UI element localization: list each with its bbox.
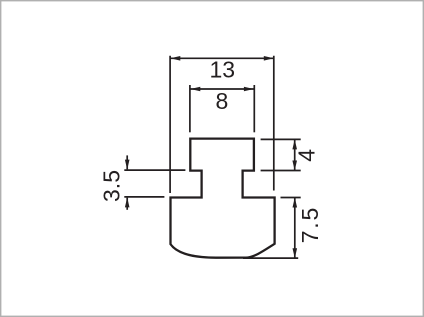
dimension 4: value label (rotated) [293,149,319,162]
svg-text:7.5: 7.5 [297,206,323,243]
dimension 3.5: extension line bottom [124,196,164,198]
svg-text:3.5: 3.5 [99,170,125,202]
dimension 8: extension line left [189,85,191,132]
dimension 7.5: dimension line with arrows [293,198,298,259]
svg-text:13: 13 [210,57,236,83]
dimension 7.5: value label (rotated) [297,206,323,243]
dimension 3.5: value label (rotated) [99,170,125,202]
svg-text:8: 8 [216,88,229,114]
dimension 4: extension line bottom [261,170,301,172]
dimension 13: value label [210,57,236,83]
dimension 8: dimension line with arrows [190,87,254,92]
dimension 4: extension line top [261,138,301,140]
dimension 3.5: extension line top [124,169,185,171]
dimension 8: value label [216,88,229,114]
dimension 7.5: extension line top [281,197,301,199]
profile outline (extrusion cross-section) [171,139,275,258]
dimension 13: dimension line with arrows [170,56,273,61]
dimension 7.5: extension line bottom [243,257,298,259]
dimension 8: extension line right [253,85,255,132]
dimension 3.5: upper outside arrow [125,155,130,169]
dimension 13: extension line right [273,56,275,191]
dimension 13: extension line left [169,56,171,193]
dimension 4: dimension line with arrows [292,139,297,170]
dimension 3.5: lower outside arrow [125,197,130,209]
svg-text:4: 4 [293,149,319,162]
